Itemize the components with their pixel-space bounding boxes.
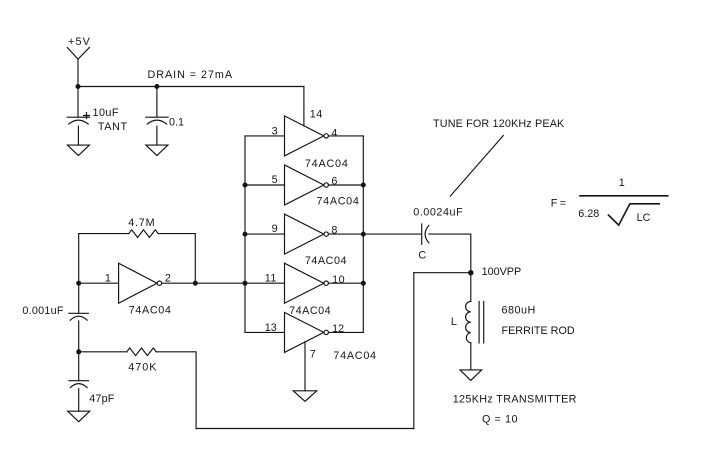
svg-text:6: 6 bbox=[331, 175, 337, 187]
wire pin 6 output bbox=[328, 184, 363, 186]
svg-text:9: 9 bbox=[272, 223, 278, 235]
wire pin 11 input bbox=[245, 282, 285, 284]
svg-text:0.001uF: 0.001uF bbox=[22, 305, 63, 317]
svg-text:11: 11 bbox=[265, 273, 277, 285]
ground (pin 7) bbox=[293, 391, 317, 402]
resistor 4.7M bbox=[129, 230, 158, 238]
svg-text:4: 4 bbox=[331, 127, 337, 139]
svg-text:F =: F = bbox=[551, 197, 566, 209]
junction node rail/C1 bbox=[76, 84, 81, 89]
svg-text:6.28: 6.28 bbox=[578, 208, 599, 220]
wire +5V rail bbox=[78, 86, 304, 88]
ground (10uF) bbox=[67, 145, 89, 156]
formula fraction bar bbox=[580, 195, 668, 197]
svg-text:0.1: 0.1 bbox=[169, 116, 184, 128]
wire pin 8 output bbox=[328, 233, 363, 235]
wire 470K right segment down to bottom rail bbox=[156, 352, 196, 429]
junction node output bus y=234.1 bbox=[361, 232, 366, 237]
svg-text:+5V: +5V bbox=[68, 36, 91, 48]
wire pin 3 input bbox=[245, 135, 285, 137]
wire 470K left segment bbox=[79, 351, 127, 353]
ground (0.1) bbox=[146, 145, 168, 156]
wire C2 top lead bbox=[156, 87, 158, 118]
svg-text:8: 8 bbox=[331, 225, 337, 237]
wire 0.001uF to 470K node bbox=[78, 321, 80, 352]
capacitor 10uF TANT (polarized, + mark) bbox=[67, 113, 89, 125]
wire C2 bottom lead bbox=[156, 126, 158, 145]
svg-text:47pF: 47pF bbox=[89, 393, 115, 405]
wire pin 14 drop bbox=[303, 87, 305, 127]
wire pin 10 output bbox=[328, 282, 363, 284]
wire pin 2 output to stack bus bbox=[162, 282, 245, 284]
svg-text:12: 12 bbox=[332, 323, 344, 335]
wire stack output bus bbox=[362, 136, 364, 333]
wire pin 13 input bbox=[245, 331, 285, 333]
svg-text:14: 14 bbox=[310, 109, 323, 121]
capacitor 47pF bbox=[69, 381, 89, 388]
capacitor 0.001uF bbox=[69, 313, 89, 320]
+5V power symbol bbox=[67, 48, 89, 60]
junction node pin2/4.7M bbox=[193, 281, 198, 286]
wire bottom feedback rail bbox=[196, 428, 414, 430]
svg-text:13: 13 bbox=[265, 322, 277, 334]
junction node 0.001uF/470K/47pF bbox=[76, 349, 81, 354]
junction node input bus y=185.0 bbox=[243, 183, 248, 188]
svg-text:TANT: TANT bbox=[98, 121, 128, 133]
wire C1 bottom lead bbox=[77, 126, 79, 145]
inverter U1B (pins 5-6) bbox=[285, 165, 329, 205]
junction node output bus y=185.0 bbox=[361, 183, 366, 188]
capacitor 0.1 bbox=[146, 117, 168, 124]
svg-text:74AC04: 74AC04 bbox=[289, 305, 331, 317]
inverter U1A (pins 3-4) bbox=[285, 116, 329, 156]
formula radical sign bbox=[609, 204, 660, 225]
svg-text:74AC04: 74AC04 bbox=[333, 350, 376, 362]
wire L to ground bbox=[470, 343, 472, 370]
svg-text:2: 2 bbox=[165, 272, 171, 284]
inverter U1E (pins 13-12) bbox=[285, 312, 329, 352]
wire 47pF bottom lead bbox=[78, 388, 80, 411]
wire pin 7 to ground bbox=[304, 342, 306, 391]
svg-text:Q = 10: Q = 10 bbox=[482, 413, 518, 425]
wire 100VPP to L bbox=[470, 273, 472, 302]
svg-text:74AC04: 74AC04 bbox=[305, 158, 349, 170]
wire pin 1 input bbox=[79, 282, 119, 284]
junction node output bus y=283.2 bbox=[361, 281, 366, 286]
svg-text:1: 1 bbox=[619, 177, 625, 189]
svg-text:680uH: 680uH bbox=[502, 305, 536, 317]
ground (47pF) bbox=[68, 411, 90, 422]
svg-text:74AC04: 74AC04 bbox=[305, 255, 347, 267]
wire pin 9 input bbox=[245, 233, 285, 235]
svg-text:L: L bbox=[451, 316, 457, 328]
svg-text:125KHz TRANSMITTER: 125KHz TRANSMITTER bbox=[453, 393, 577, 405]
ground (L) bbox=[460, 370, 482, 381]
svg-text:7: 7 bbox=[310, 349, 316, 361]
junction node input bus y=283.2 bbox=[243, 281, 248, 286]
capacitor C 0.0024uF bbox=[422, 224, 429, 244]
wire C1 top lead bbox=[77, 87, 79, 118]
wire 4.7M feedback right segment bbox=[158, 234, 195, 284]
wire left column (4.7M to 0.001uF) bbox=[78, 234, 80, 314]
inverter U1D (pins 11-10) bbox=[285, 263, 329, 303]
svg-text:DRAIN = 27mA: DRAIN = 27mA bbox=[148, 69, 234, 81]
wire feedback to 100VPP node bbox=[414, 272, 471, 274]
svg-text:4.7M: 4.7M bbox=[128, 217, 155, 229]
junction node 100VPP bbox=[468, 270, 473, 275]
wire C to corner bbox=[429, 234, 471, 273]
wire 4.7M feedback left segment bbox=[79, 233, 129, 235]
svg-text:100VPP: 100VPP bbox=[482, 266, 522, 278]
wire pin 4 output bbox=[328, 135, 363, 137]
wire pin 5 input bbox=[245, 184, 285, 186]
svg-text:TUNE FOR 120KHz PEAK: TUNE FOR 120KHz PEAK bbox=[433, 118, 565, 130]
wire 47pF top lead bbox=[78, 352, 80, 381]
svg-text:C: C bbox=[418, 250, 426, 262]
svg-text:10uF: 10uF bbox=[93, 107, 119, 119]
wire stack input bus bbox=[244, 136, 246, 333]
svg-text:5: 5 bbox=[272, 174, 278, 186]
junction node pin1/column bbox=[76, 281, 81, 286]
svg-text:0.0024uF: 0.0024uF bbox=[413, 207, 463, 219]
wire output row to C bbox=[363, 233, 420, 235]
svg-text:74AC04: 74AC04 bbox=[129, 304, 172, 316]
junction node rail/C2 bbox=[154, 84, 159, 89]
junction node input bus y=234.1 bbox=[243, 232, 248, 237]
svg-text:10: 10 bbox=[332, 274, 345, 286]
svg-text:1: 1 bbox=[105, 272, 111, 284]
wire feedback riser bbox=[413, 273, 415, 429]
op-amp U1F inverter (pins 1-2) bbox=[119, 263, 162, 303]
wire pin 12 output bbox=[328, 331, 363, 333]
resistor 470K bbox=[127, 348, 156, 356]
svg-text:74AC04: 74AC04 bbox=[317, 196, 360, 208]
wire +5V stem bbox=[77, 59, 79, 86]
svg-text:FERRITE ROD: FERRITE ROD bbox=[502, 325, 575, 337]
svg-text:3: 3 bbox=[272, 125, 278, 137]
inductor L 680uH bbox=[466, 301, 484, 343]
TUNE note pointer line bbox=[450, 135, 503, 196]
inverter U1C (pins 9-8) bbox=[285, 214, 329, 254]
svg-text:470K: 470K bbox=[128, 361, 157, 373]
svg-text:LC: LC bbox=[637, 212, 651, 224]
